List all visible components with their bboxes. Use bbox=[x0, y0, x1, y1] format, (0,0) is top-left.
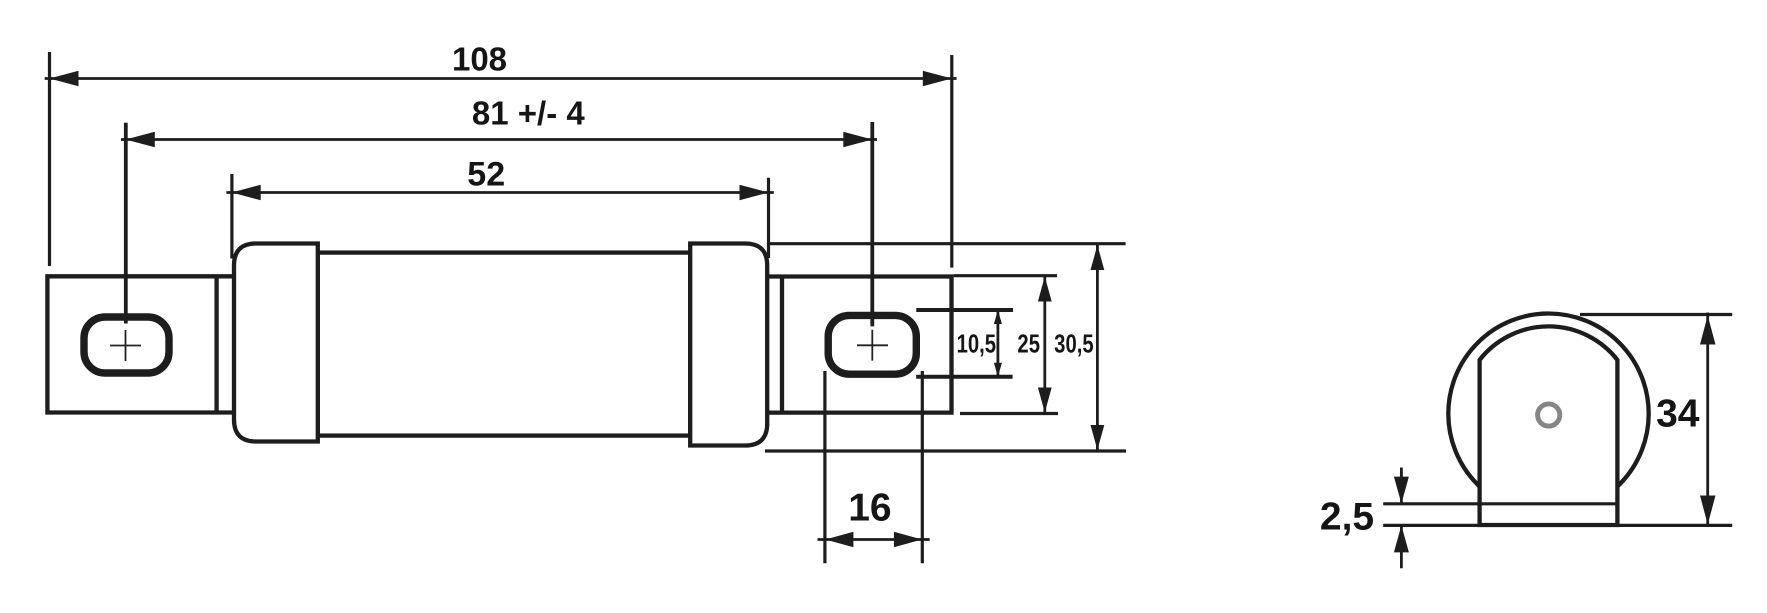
svg-text:81 +/- 4: 81 +/- 4 bbox=[472, 95, 585, 132]
svg-text:108: 108 bbox=[452, 41, 507, 78]
svg-text:52: 52 bbox=[467, 156, 505, 194]
svg-text:34: 34 bbox=[1656, 393, 1700, 436]
svg-text:25: 25 bbox=[1017, 329, 1040, 358]
svg-text:2,5: 2,5 bbox=[1320, 496, 1374, 539]
svg-text:10,5: 10,5 bbox=[957, 329, 996, 358]
svg-text:16: 16 bbox=[848, 487, 891, 530]
svg-text:30,5: 30,5 bbox=[1054, 329, 1093, 358]
